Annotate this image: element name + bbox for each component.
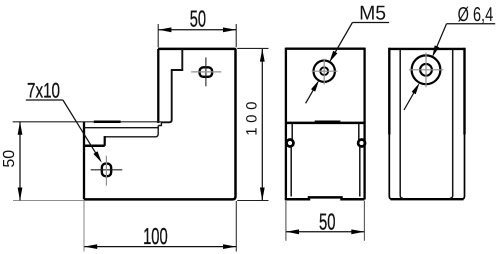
slot1 vertical centerline black [205, 57, 207, 86]
label 6,4 arrowhead lower [412, 83, 420, 95]
dimension 100 right: arrows [260, 49, 265, 62]
left view step vertical [104, 136, 106, 146]
label M5 leader line upper [332, 23, 352, 58]
svg-text:50: 50 [190, 5, 206, 31]
hole M5 outer circle [314, 60, 335, 81]
hole 6.4 inner circle [420, 64, 432, 76]
right view inner vertical left [400, 50, 403, 198]
dimension 100 right: dimension line [261, 49, 263, 201]
middle view inner vertical right lower [359, 147, 361, 197]
middle view groove bump right [358, 140, 365, 147]
dimension 100 bottom: dimension line [84, 246, 236, 248]
label M5 arrowhead upper [329, 51, 337, 63]
label M5 underline [352, 22, 389, 24]
svg-text:Ø 6,4: Ø 6,4 [458, 4, 494, 26]
slot 7x10 bottom (vertical stadium) [102, 164, 111, 177]
middle view inner vertical left lower [290, 147, 292, 197]
leader 7x10 underline [26, 99, 63, 101]
M5 horizontal centerline gray [312, 70, 338, 72]
left view lug thick segment on A [94, 121, 121, 124]
left view top face line A thin with extension to left 50 dim [13, 121, 162, 123]
hole M5 inner circle [320, 67, 328, 75]
dimension 100 bottom: extension lines [83, 201, 85, 252]
right view inner vertical right [450, 50, 453, 198]
dimension 50 top: arrows [158, 27, 171, 32]
dimension 100 bottom: arrows [84, 244, 97, 249]
hole 6.4 vertical centerline gray [425, 53, 427, 88]
label 6,4 arrowhead upper [432, 45, 439, 57]
middle view face line y123 with raised mid segment [286, 122, 365, 125]
leader 7x10 diagonal [63, 100, 99, 158]
leader 7x10 arrowhead [93, 151, 101, 163]
dimension 50 middle: extension lines [285, 201, 287, 241]
left view V2 stepped inner edge of top arm [161, 49, 182, 122]
svg-text:100: 100 [243, 102, 260, 136]
label M5 arrowhead lower [311, 80, 319, 92]
right view outline [389, 48, 464, 200]
dimension 50 left: dimension line [19, 122, 21, 200]
left view line B [84, 127, 158, 129]
left view line D thick [83, 145, 105, 148]
slot2 horizontal centerline black [91, 169, 123, 171]
M5 vertical centerline gray [323, 59, 325, 85]
dimension 50 left: arrows [18, 122, 23, 135]
middle view outline [286, 48, 365, 200]
left view corner step blob [158, 122, 161, 126]
label 6,4 leader line lower tail [404, 88, 417, 110]
svg-text:7x10: 7x10 [27, 79, 60, 102]
svg-text:50: 50 [1, 150, 18, 168]
dimension 50 middle: dimension line [286, 231, 364, 233]
slot2 vertical centerline gray [105, 156, 107, 186]
dimension 50 middle: arrows [286, 229, 299, 234]
label M5 leader line lower tail [306, 85, 316, 103]
label 6,4 underline [447, 23, 496, 25]
slot 7x10 top (horizontal stadium) [200, 67, 213, 77]
middle view inner vertical left upper [291, 124, 293, 140]
dimension 50 left: bottom extension line gray [13, 200, 84, 202]
left view outer outline [84, 49, 236, 200]
svg-text:M5: M5 [359, 3, 386, 25]
middle view groove bump left [287, 140, 294, 147]
svg-text:100: 100 [143, 223, 168, 249]
hole 6.4 outer circle [412, 55, 441, 84]
hole 6.4 horizontal centerline gray [409, 69, 443, 71]
middle view inner vertical right upper [358, 124, 360, 140]
label 6,4 leader line upper [434, 24, 446, 53]
dimension 100 right: extension lines [237, 47, 268, 49]
dimension 50 top: dimension line [158, 29, 236, 31]
slot1 horizontal centerline gray [191, 71, 221, 73]
middle view bottom edge with relief [285, 197, 365, 199]
dimension 50 top: extension lines [157, 24, 159, 47]
left view V3 + line C [105, 126, 159, 137]
svg-text:50: 50 [319, 209, 336, 235]
